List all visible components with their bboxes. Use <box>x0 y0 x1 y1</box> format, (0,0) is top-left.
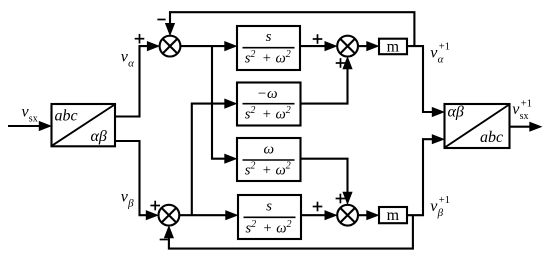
svg-text:abc: abc <box>55 107 78 124</box>
svg-text:β: β <box>437 207 444 219</box>
svg-text:+1: +1 <box>439 42 450 53</box>
svg-text:α: α <box>128 57 134 69</box>
minus sign at S3 feedback input <box>160 239 168 241</box>
wire m2 output to alpha-beta block bottom input <box>407 134 445 215</box>
wire sum S4 output to gain m2 <box>358 210 380 220</box>
gain block m1 <box>379 38 407 55</box>
svg-text:abc: abc <box>480 129 503 146</box>
block G1 s/(s2+w2) <box>237 26 300 70</box>
svg-text:+: + <box>264 221 272 237</box>
label v_sx +1 <box>512 98 532 122</box>
summing junction S2 <box>337 36 358 57</box>
minus sign at S1 feedback input <box>157 19 165 21</box>
plus sign at S3 input <box>150 201 160 211</box>
wire block G3 output down to plus input of S4 <box>301 159 353 205</box>
svg-text:α: α <box>438 53 444 65</box>
svg-text:sx: sx <box>520 111 529 122</box>
plus sign at S2 left input <box>313 34 323 44</box>
svg-text:m: m <box>387 207 400 224</box>
block G3 w/(s2+w2) <box>237 138 301 181</box>
wire bottom feedback loop to minus input of S3 <box>164 215 413 248</box>
svg-text:ω: ω <box>264 142 275 158</box>
block G4 s/(s2+w2) <box>238 195 301 239</box>
svg-text:+: + <box>263 51 271 67</box>
label v_alpha +1 <box>430 42 450 66</box>
wire sum S2 output to gain m1 <box>358 41 380 51</box>
gain block m2 <box>379 207 407 224</box>
summing junction S4 <box>337 205 358 226</box>
wire sum S3 output to block G4 <box>179 210 238 220</box>
wire sum S1 output to block G1 <box>180 41 237 51</box>
wire v_alpha from abc block to summing junction S1 <box>115 41 160 117</box>
svg-text:sx: sx <box>29 113 38 124</box>
label v_alpha <box>121 48 134 69</box>
svg-text:β: β <box>127 197 134 209</box>
svg-text:αβ: αβ <box>91 128 107 145</box>
block G2 -w/(s2+w2) <box>237 83 301 126</box>
plus sign at S2 bottom input <box>336 58 346 68</box>
transformation block abc to alpha-beta <box>52 104 116 146</box>
svg-text:+1: +1 <box>439 195 450 206</box>
summing junction S3 <box>159 205 180 226</box>
wire top feedback loop to minus input of S1 <box>165 12 415 46</box>
plus sign at S4 top input <box>336 194 346 204</box>
wire m1 output to alpha-beta block top input <box>407 46 445 117</box>
wire block G2 output up to plus input of S2 <box>301 56 353 104</box>
svg-text:+: + <box>263 162 271 178</box>
label v_beta <box>121 188 134 209</box>
wire branch from S1 output down to block G3 input <box>212 46 238 164</box>
svg-text:+: + <box>263 106 271 122</box>
svg-text:s: s <box>266 29 272 45</box>
summing junction S1 <box>160 36 181 57</box>
label v_sx <box>22 103 38 124</box>
svg-text:m: m <box>387 38 400 55</box>
transformation block alpha-beta to abc <box>445 104 510 148</box>
wire v_sx+1 output <box>510 122 543 132</box>
plus sign at S1 input <box>135 34 145 44</box>
svg-text:αβ: αβ <box>448 104 464 121</box>
svg-text:+1: +1 <box>521 98 532 109</box>
svg-text:s: s <box>266 198 272 214</box>
wire v_sx input <box>8 121 52 131</box>
wire block G1 output to summing junction S2 <box>300 41 338 51</box>
plus sign at S4 left input <box>313 202 323 212</box>
svg-text:−ω: −ω <box>257 86 278 102</box>
wire block G4 output to summing junction S4 <box>301 210 338 220</box>
label v_beta +1 <box>430 195 450 219</box>
wire branch from S3 output up to block G2 input <box>192 99 238 216</box>
wire v_beta from abc block to summing junction S3 <box>115 141 159 220</box>
